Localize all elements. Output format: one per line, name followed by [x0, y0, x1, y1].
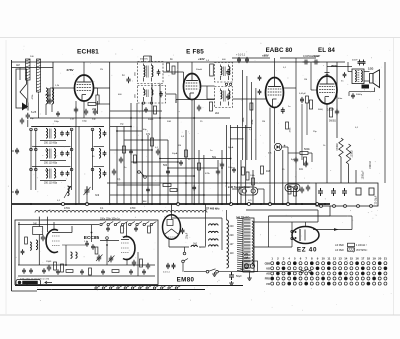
resistor ECH81 cathode [96, 95, 99, 104]
resistor 50k v [304, 157, 307, 165]
wire mid h3 [124, 139, 168, 141]
switch contact m2 [144, 176, 147, 179]
output transformer [352, 69, 364, 84]
wire em80 right [199, 246, 206, 248]
IF transformer can 1 [138, 62, 164, 84]
wire fm far left v [18, 222, 20, 265]
wire h195 ext [110, 194, 230, 196]
wire vertical m3 [123, 127, 125, 205]
svg-text:0,9A: 0,9A [243, 257, 248, 260]
wire OT to speaker [364, 71, 370, 73]
wire 258V [355, 170, 357, 183]
svg-text:25: 25 [200, 121, 203, 123]
svg-text:+ 0,1 0,1: + 0,1 0,1 [236, 55, 246, 57]
svg-text:65p: 65p [45, 170, 49, 172]
svg-text:4700Ω: 4700Ω [336, 143, 339, 150]
capacitor ECH81 grid [48, 98, 52, 105]
wire mid h10 [168, 167, 218, 169]
wire speaker return [374, 88, 376, 92]
ECC85 A electrodes [52, 236, 60, 246]
trimmer filter 2 [66, 151, 70, 156]
capacitor filter C3 [60, 171, 64, 176]
svg-text:110: 110 [230, 252, 234, 255]
ratio detector secondary can [215, 87, 233, 108]
switch contact fm top [121, 223, 123, 225]
wire grid cap [49, 88, 51, 97]
svg-text:127: 127 [230, 243, 235, 246]
wire ecc v4 [137, 252, 139, 276]
bus junction dot [109, 203, 111, 205]
capacitor m6 [216, 169, 220, 176]
tube EABC80 [266, 78, 284, 108]
bus junction [62, 203, 65, 206]
core filter 3 [49, 169, 51, 179]
capacitor left border 1 [15, 148, 19, 154]
svg-text:0,1: 0,1 [57, 200, 61, 202]
svg-text:0,1: 0,1 [283, 67, 287, 69]
potentiometer (volume) [239, 187, 258, 195]
svg-text:50μA: 50μA [228, 146, 234, 149]
wire em80 top [171, 204, 173, 215]
wire ecc v3 [65, 245, 67, 265]
capacitor osc C2 [103, 151, 107, 156]
switch contact fm top [143, 223, 145, 225]
svg-text:3n9: 3n9 [95, 194, 100, 197]
resistor divider 4 [209, 245, 219, 247]
wire filter row1 bot [40, 140, 66, 142]
svg-text:5000p: 5000p [356, 94, 363, 96]
resistor fm bot3 [112, 270, 119, 273]
resistor fm r1 [140, 259, 143, 267]
wire EF85 plate [191, 62, 193, 74]
terminal can2 b [150, 102, 152, 104]
capacitor eabc 1 [281, 107, 285, 113]
wire net sw [218, 271, 300, 273]
resistor 500k [300, 152, 308, 155]
svg-text:10n: 10n [299, 168, 304, 171]
bus junction dot [30, 203, 32, 205]
wire mid h4 [110, 149, 152, 151]
junction [203, 194, 205, 196]
svg-text:460: 460 [135, 71, 137, 75]
switch contact col1 row1 [30, 128, 33, 131]
capacitor m5 [220, 162, 224, 169]
capacitor m10 [146, 187, 150, 192]
svg-text:18: 18 [367, 257, 371, 261]
wire divider [205, 218, 207, 247]
capacitor between cans [258, 75, 262, 80]
capacitor fm bot5 [80, 269, 84, 274]
svg-text:3,2Ω: 3,2Ω [368, 68, 373, 71]
resistor r-net 2 [294, 188, 297, 196]
capacitor filter C1 [60, 131, 64, 136]
tube ECC85 triode A [46, 230, 58, 253]
wire filters top [31, 126, 104, 128]
svg-text:1M: 1M [266, 169, 270, 173]
IF transformer can 3 (ratio det primary) [215, 63, 233, 83]
svg-text:20k: 20k [92, 107, 97, 111]
switch contact chassis row [131, 287, 133, 289]
resistor fm far left [25, 237, 28, 244]
svg-text:AO: AO [266, 273, 270, 276]
svg-text:100n 100n 100n 1n: 100n 100n 100n 1n [100, 218, 121, 220]
svg-text:300Ω: 300Ω [148, 119, 154, 121]
wire ecc v5 [106, 239, 108, 265]
wire can4 to eabc [233, 98, 266, 100]
page left edge (scan artifact) [5, 40, 7, 314]
nameplate arrow [45, 281, 52, 284]
terminal [320, 205, 323, 208]
wire ecc v2 [126, 222, 128, 238]
switch contact col1 row2 [30, 148, 33, 151]
wire mains 1 [226, 210, 228, 220]
wire antenna to filter [27, 120, 29, 127]
wire mid h1 [110, 126, 131, 128]
page bottom edge (scan artifact) [0, 314, 400, 316]
svg-text:50μA: 50μA [172, 152, 178, 155]
bus junction [230, 203, 233, 206]
bus junction [269, 203, 272, 206]
svg-text:100k: 100k [243, 117, 245, 123]
switch contact col2 row1 [35, 128, 38, 131]
tuning coil (arrow) [68, 186, 70, 196]
bus junction dot [185, 203, 187, 205]
mains transformer [227, 218, 255, 272]
svg-text:3: 3 [283, 257, 285, 261]
resistor m3 [163, 184, 171, 187]
svg-text:VKP MHΩ :: VKP MHΩ : [356, 250, 368, 252]
wire vertical n5 [237, 125, 239, 204]
junction [221, 167, 223, 169]
resistor fm bot [66, 270, 73, 273]
wire vertical m6 [141, 103, 143, 204]
svg-text:11: 11 [327, 257, 330, 261]
capacitor EF85 k [197, 105, 201, 112]
svg-text:40p: 40p [92, 119, 96, 121]
wire right rail2 [336, 62, 338, 138]
resistor EL84 grid leak [309, 100, 312, 109]
wire fm in [38, 217, 40, 227]
svg-text:1kΩ: 1kΩ [193, 244, 197, 246]
wire ECH81 right [98, 103, 110, 105]
wire top-right rail [280, 57, 316, 59]
scan speckle noise [8, 40, 392, 311]
wire top mid [232, 57, 270, 59]
coil fm osc2 [76, 252, 78, 258]
switch contact col4 row1 [91, 128, 94, 131]
capacitor antenna coupling [26, 113, 30, 120]
svg-text:mF PER: mF PER [335, 245, 344, 247]
wire switch col3 [71, 130, 73, 191]
ECC85 B electrodes [121, 243, 129, 253]
svg-text:0,1: 0,1 [355, 127, 359, 129]
bus junction dot [130, 203, 132, 205]
capacitor fm mid1 [85, 241, 89, 246]
junction [193, 117, 195, 119]
wire vertical m12 [185, 130, 187, 204]
page right edge (scan artifact) [393, 38, 395, 315]
wire vertical m14 [198, 150, 200, 204]
svg-text:220: 220 [230, 234, 235, 237]
wire switch col4 [92, 130, 94, 191]
svg-text:16: 16 [356, 257, 360, 261]
svg-text:2: 2 [277, 257, 279, 261]
wire h183 [107, 182, 316, 184]
wire IF can1 to EF85 [163, 71, 184, 73]
capacitor m11 [232, 167, 236, 172]
ground bus (heavy) [12, 203, 330, 205]
EL84 top cap [325, 73, 330, 75]
svg-text:100p: 100p [228, 167, 234, 169]
resistor fm in [33, 227, 43, 235]
svg-text:250 110 65p: 250 110 65p [44, 162, 58, 165]
wire psu box down [329, 206, 331, 216]
core filter 2 [49, 149, 51, 159]
wire pot left [232, 188, 239, 190]
svg-text:1M: 1M [178, 145, 181, 147]
switch contact chassis row [161, 287, 163, 289]
svg-text:1M: 1M [304, 79, 307, 81]
svg-text:3n: 3n [188, 159, 191, 161]
speaker [370, 70, 380, 88]
svg-text:25: 25 [282, 169, 285, 171]
capacitor fm far left [21, 249, 25, 254]
switch contact fm top [129, 223, 131, 225]
switch contact chassis row [153, 287, 155, 289]
svg-text:19: 19 [373, 257, 377, 261]
FM tuner box [15, 220, 158, 285]
wire psu v1 [340, 157, 342, 183]
capacitor coupling 2 [313, 60, 320, 65]
wire vertical n2 [221, 150, 223, 204]
terminal [333, 205, 336, 208]
coil core left [46, 88, 48, 104]
capacitor em80 k2 [172, 263, 176, 269]
svg-text:570: 570 [248, 200, 252, 202]
svg-text:FO: FO [267, 283, 271, 286]
capacitor fm bot2 [29, 268, 33, 273]
capacitor af 2 [304, 161, 308, 168]
wire EZ40 out [313, 229, 352, 231]
resistor divider 1 [209, 224, 219, 226]
resistor m4 [242, 167, 245, 175]
svg-text:17: 17 [361, 257, 365, 261]
wire mid h9 [160, 158, 231, 160]
svg-text:8μF: 8μF [291, 159, 295, 161]
wire mid h8 [152, 194, 204, 196]
capacitor ECH81 bypass [74, 107, 78, 114]
resistor eabc r1 [306, 96, 309, 103]
terminal can a [225, 83, 227, 85]
wire EABC80 plate [274, 58, 276, 77]
wire vertical n6 [240, 160, 242, 204]
svg-text:278V: 278V [66, 68, 73, 72]
wire vertical m11 [177, 62, 179, 204]
wire EL84 grid [311, 89, 317, 91]
wire avc [30, 117, 230, 119]
wire top-left rail b [12, 67, 54, 69]
svg-text:2n: 2n [124, 167, 127, 169]
svg-text:14: 14 [344, 257, 348, 261]
antenna dipole outline [16, 69, 27, 108]
wire psu v2 [348, 164, 350, 183]
junction [130, 126, 132, 128]
svg-text:0,5: 0,5 [181, 136, 185, 138]
svg-text:470k: 470k [290, 127, 292, 133]
wire cathode [97, 101, 99, 114]
capacitor m1 [156, 149, 160, 156]
svg-text:0,1: 0,1 [100, 207, 104, 210]
svg-text:500k: 500k [304, 147, 310, 151]
wire vertical m13 [193, 100, 195, 205]
capacitor osc C1 [103, 131, 107, 136]
svg-text:EZ 40: EZ 40 [297, 247, 317, 254]
bus junction [86, 203, 89, 206]
speaker magnet [362, 85, 370, 89]
svg-text:5600: 5600 [318, 109, 324, 111]
wire EZ40 out up [351, 216, 353, 230]
svg-text:0,1 0,1: 0,1 0,1 [163, 272, 170, 274]
svg-text:500: 500 [163, 164, 168, 167]
wire ECH81 triode grid [94, 87, 110, 89]
wire coil core [45, 104, 47, 115]
svg-text:+93V: +93V [198, 57, 205, 61]
capacitor IF 1 [126, 77, 130, 84]
junction [151, 149, 153, 151]
wire filter row2 bot [40, 160, 66, 162]
terminal em80 b [182, 260, 185, 263]
wire mid h7 [117, 184, 160, 186]
wire left border stub 1 [12, 150, 15, 152]
capacitor m7 [129, 149, 133, 154]
switch contact chassis row [139, 287, 141, 289]
tube EF85 [184, 74, 201, 100]
svg-text:2-40 Tonabnehmer: 2-40 Tonabnehmer [228, 186, 250, 189]
switch net right b [309, 271, 311, 273]
bus junction dot [221, 203, 223, 205]
svg-text:ECH81: ECH81 [77, 49, 99, 56]
capacitor ECH81 bypass2 [84, 109, 88, 116]
wire vertical m7 [147, 135, 149, 204]
svg-text:AM: AM [16, 64, 20, 67]
svg-text:2N: 2N [100, 69, 103, 71]
capacitor r-net 2 [306, 185, 310, 192]
capacitor fm r2 [146, 263, 150, 270]
wire fm mid h [62, 244, 87, 246]
antenna rod 1 (hatched) [26, 59, 31, 80]
tiny scattered labels [30, 59, 359, 204]
svg-text:10: 10 [322, 257, 326, 261]
svg-text:47pF: 47pF [45, 93, 51, 97]
svg-text:470k: 470k [205, 173, 211, 175]
svg-text:1k: 1k [323, 145, 326, 147]
wire EF85 to can3 [201, 85, 215, 87]
capacitor m9 [192, 185, 196, 190]
junction ecc b [106, 244, 108, 246]
antenna rod 2 (hatched) [37, 59, 41, 92]
svg-text:0,047: 0,047 [303, 55, 310, 58]
capacitor top mid 2 [245, 57, 249, 63]
wire IF top leads [143, 56, 145, 62]
svg-text:460: 460 [222, 59, 226, 61]
wire ECH81 grid left [62, 87, 75, 89]
svg-text:0,05: 0,05 [70, 119, 75, 121]
switch contact col4 row2 [91, 148, 94, 151]
wire can edge down [136, 103, 138, 127]
bus junction [248, 203, 251, 206]
svg-text:4 100 kΩ !: 4 100 kΩ ! [356, 245, 367, 247]
wire can2 link [166, 93, 177, 95]
svg-text:0,047: 0,047 [314, 55, 321, 58]
tube EL84 [317, 76, 337, 104]
capacitor fm in2 [41, 235, 45, 242]
terminal can b [229, 83, 231, 85]
switch contact fm top [100, 223, 102, 225]
bus junction [316, 203, 319, 206]
resistor m10 [252, 178, 255, 185]
terminal [357, 205, 360, 208]
bus junction dot [295, 203, 297, 205]
wire mid h6 [142, 175, 194, 177]
svg-text:mF PER: mF PER [335, 250, 344, 252]
svg-text:20: 20 [378, 257, 382, 261]
svg-text:15: 15 [350, 257, 354, 261]
wire vertical n8 [252, 170, 254, 204]
svg-text:250 110 65p: 250 110 65p [44, 182, 58, 185]
svg-text:0,1: 0,1 [249, 129, 253, 131]
svg-text:1500 Ω: 1500 Ω [369, 161, 372, 169]
wire eabc v2 [246, 76, 248, 160]
junction [141, 139, 143, 141]
svg-text:40p: 40p [143, 129, 147, 131]
svg-text:0,1: 0,1 [117, 178, 121, 181]
wire avc2 [110, 110, 162, 112]
variable cap fm 1 [97, 255, 101, 262]
resistor underneath can2 [154, 106, 157, 114]
capacitor EL84 cathode [335, 109, 339, 116]
capacitor filter C2 [60, 151, 64, 156]
coil osc L1 [99, 129, 101, 139]
capacitor r-net 1 [300, 187, 304, 194]
svg-text:470k: 470k [252, 119, 254, 125]
wire ECH81 down1 [75, 101, 77, 127]
capacitor m4 [112, 169, 116, 176]
junction [167, 167, 169, 169]
wire fm left v [38, 235, 40, 266]
svg-text:200p: 200p [54, 121, 60, 123]
capacitor eabc r1 [300, 97, 304, 103]
wire vertical m4 [130, 103, 132, 204]
electrolytic cap 3 [342, 188, 347, 196]
resistor m8 [198, 163, 201, 170]
wire ECH81 plate to rail [83, 62, 85, 75]
legend box hatched [348, 248, 355, 251]
capacitor left of OT [343, 72, 347, 77]
coil filter L1b [54, 129, 56, 139]
wire vertical m15 [203, 155, 205, 204]
svg-text:2M: 2M [262, 121, 265, 123]
wire fm top [18, 224, 99, 226]
wire vertical m5 [136, 127, 138, 205]
svg-text:1200Ω: 1200Ω [351, 150, 354, 157]
wire ECH81 box top [52, 62, 54, 100]
switch contact col1 row3 [30, 168, 33, 171]
coil fm in [36, 240, 38, 250]
capacitor fm bot1 [22, 268, 26, 273]
coil osc L2 [99, 149, 101, 159]
wire fm h1 [18, 264, 155, 266]
wire vertical m8 [151, 84, 153, 205]
